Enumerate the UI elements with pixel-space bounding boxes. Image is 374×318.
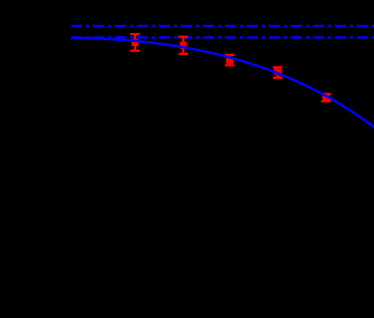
error bar point 5: [321, 94, 331, 101]
marker point 4: [274, 68, 281, 75]
marker point 1: [132, 39, 139, 46]
marker point 5: [323, 94, 330, 101]
error bar point 1: [130, 34, 140, 51]
error bar point 4: [273, 67, 283, 77]
upper dash-dot bound line: [71, 25, 374, 27]
lower dash-dot bound line: [71, 36, 374, 38]
error bar point 2: [178, 37, 188, 54]
marker point 2: [180, 42, 187, 49]
blue fit curve: [71, 38, 374, 128]
marker point 3: [226, 57, 233, 64]
error bar point 3: [225, 55, 235, 65]
